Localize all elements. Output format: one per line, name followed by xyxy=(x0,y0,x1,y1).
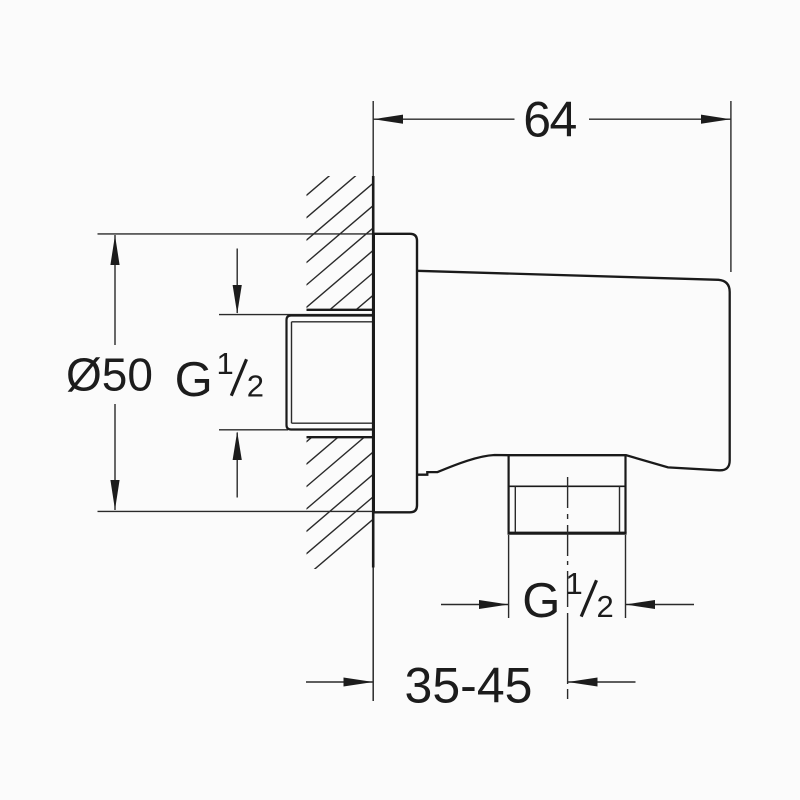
dimension 35-45 wall extension line xyxy=(372,568,374,702)
wall surface edge line xyxy=(372,176,375,568)
svg-text:1: 1 xyxy=(566,566,583,601)
svg-text:64: 64 xyxy=(523,91,576,147)
dimension 35-45 line left segment xyxy=(306,681,373,683)
wall hole bottom edge xyxy=(307,436,374,438)
body outline xyxy=(417,271,730,475)
svg-text:35-45: 35-45 xyxy=(405,657,533,713)
dimension D50 line upper segment xyxy=(114,235,116,345)
inlet thread bottom extension line xyxy=(219,429,288,431)
outlet G1/2 dimension line right segment xyxy=(626,604,695,606)
dimension 64 left arrowhead xyxy=(374,115,404,124)
wall hatching xyxy=(280,119,396,599)
inlet thread size dimension lower arrowhead xyxy=(233,432,242,461)
dimension 64 right extension line xyxy=(730,101,732,272)
dimension D50 bottom arrowhead xyxy=(110,480,119,510)
dimension D50 line lower segment xyxy=(114,404,116,510)
dimension 64 right arrowhead xyxy=(701,115,731,124)
inlet thread G1/2 label: fraction slash xyxy=(231,359,246,396)
outlet G1/2 dimension left arrowhead xyxy=(479,600,509,609)
dimension D50 bottom extension line xyxy=(98,510,374,512)
dimension 64 line left segment xyxy=(373,118,514,120)
outlet boss bottom edge xyxy=(508,532,627,535)
inlet thread chamfer line xyxy=(291,322,293,423)
dimension 64 left extension line xyxy=(372,101,374,180)
outlet thread runout line xyxy=(509,485,626,487)
dimension 35-45 left arrowhead xyxy=(344,678,374,687)
svg-text:2: 2 xyxy=(247,369,264,404)
svg-text:2: 2 xyxy=(597,589,614,624)
outlet G1/2 dimension right arrowhead xyxy=(626,600,656,609)
inlet thread size dimension upper arrow line xyxy=(236,249,238,314)
inlet thread size dimension upper arrowhead xyxy=(233,285,242,314)
outlet centerline dashed xyxy=(567,477,569,699)
outlet G1/2 dimension line left segment xyxy=(441,604,509,606)
dimension D50 top arrowhead xyxy=(110,235,119,265)
dimension 35-45 line right segment xyxy=(568,681,636,683)
inlet thread top extension line xyxy=(219,314,374,316)
outlet boss left edge xyxy=(508,455,510,533)
inlet thread size dimension lower arrow line xyxy=(236,433,238,498)
outlet boss right edge xyxy=(624,455,626,533)
dimension D50 top extension line xyxy=(98,233,374,235)
svg-text:Ø50: Ø50 xyxy=(66,349,153,401)
wall hole top edge xyxy=(307,309,374,311)
inlet thread G1/2 body xyxy=(287,316,375,430)
svg-text:1: 1 xyxy=(217,346,234,381)
escutcheon wall plate xyxy=(374,234,417,513)
inlet thread root line bottom xyxy=(292,422,375,424)
outlet thread root line left xyxy=(514,486,516,532)
svg-text:G: G xyxy=(522,574,560,628)
outlet boss left extension line xyxy=(508,535,510,618)
outlet boss right extension line xyxy=(625,535,627,618)
svg-text:G: G xyxy=(175,353,213,407)
inlet thread root line top xyxy=(292,321,375,323)
outlet thread root line right xyxy=(619,486,621,532)
dimension 64 line right segment xyxy=(589,118,731,120)
dimension 35-45 right arrowhead xyxy=(568,678,598,687)
outlet G1/2 label: fraction slash xyxy=(581,580,596,616)
